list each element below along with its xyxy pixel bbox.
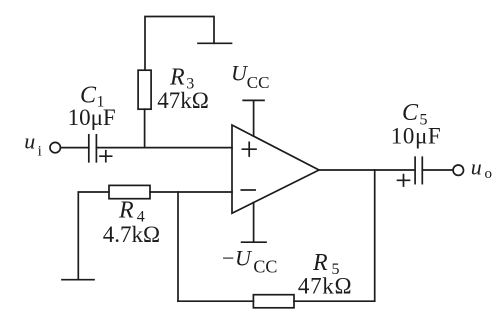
svg-text:47kΩ: 47kΩ xyxy=(298,273,352,298)
wire C5 to output terminal xyxy=(422,169,453,171)
svg-text:−: − xyxy=(222,245,234,270)
svg-text:o: o xyxy=(485,166,493,182)
svg-text:u: u xyxy=(24,128,35,153)
svg-text:10μF: 10μF xyxy=(391,124,442,149)
feedback left vertical wire xyxy=(177,192,179,301)
resistor R4 xyxy=(109,185,150,198)
svg-text:R: R xyxy=(312,250,328,276)
capacitor C5 plates xyxy=(414,157,416,183)
C5 plus polarity mark xyxy=(398,175,410,186)
resistor R3 xyxy=(138,70,151,109)
op-amp plus input sign xyxy=(242,142,256,156)
svg-text:4.7kΩ: 4.7kΩ xyxy=(103,222,160,247)
ground (top) xyxy=(198,42,232,44)
C1 plus polarity mark xyxy=(100,151,112,162)
svg-text:CC: CC xyxy=(253,256,277,276)
output terminal circle u_o xyxy=(453,165,463,175)
wire op-amp minus input to R4 xyxy=(150,191,232,193)
capacitor C1 plates xyxy=(88,135,90,162)
svg-text:R: R xyxy=(169,64,185,90)
svg-text:10μF: 10μF xyxy=(68,105,116,130)
svg-text:i: i xyxy=(38,144,42,160)
wire input terminal to C1 xyxy=(61,147,89,149)
wire R5 to feedback right vertical xyxy=(294,300,375,302)
positive supply bar and wire xyxy=(243,100,264,136)
svg-text:47kΩ: 47kΩ xyxy=(157,88,209,113)
wire C1 to op-amp plus input xyxy=(96,147,232,149)
wire R4 to ground leg xyxy=(78,192,109,280)
wire top loop from R3 top to top ground xyxy=(145,17,214,71)
op-amp U1 triangle xyxy=(232,125,319,213)
svg-text:R: R xyxy=(118,198,134,224)
wire op-amp output to C5 xyxy=(319,169,414,171)
op-amp minus input sign xyxy=(241,189,255,191)
svg-text:u: u xyxy=(471,154,482,179)
feedback right vertical wire xyxy=(374,170,376,301)
ground (bottom left) xyxy=(62,279,94,281)
svg-text:CC: CC xyxy=(247,73,270,92)
negative supply bar and wire xyxy=(242,203,266,243)
wire R3 bottom to input node xyxy=(144,109,146,147)
wire feedback bottom left to R5 xyxy=(178,300,253,302)
svg-text:C: C xyxy=(402,100,419,126)
input terminal circle u_i xyxy=(50,142,60,152)
resistor R5 xyxy=(253,295,294,308)
svg-text:U: U xyxy=(235,245,253,270)
